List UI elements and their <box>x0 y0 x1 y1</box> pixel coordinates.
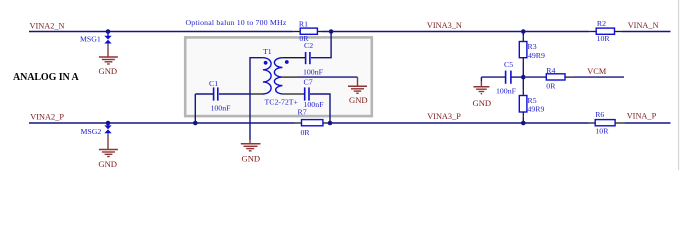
wire VCM stub <box>574 76 624 78</box>
secondary winding <box>274 58 282 94</box>
capacitor C7 <box>304 78 325 109</box>
pin stub below MSG1 <box>107 44 109 49</box>
wire center tap to ground <box>297 76 358 78</box>
wire R5 to bottom rail <box>522 112 524 117</box>
svg-text:C1: C1 <box>209 79 218 88</box>
svg-text:VINA2_N: VINA2_N <box>30 21 65 30</box>
svg-text:49R9: 49R9 <box>528 51 545 60</box>
junction node VINA3_N column <box>521 29 526 34</box>
sheet border right <box>678 0 680 170</box>
svg-text:R6: R6 <box>595 110 604 119</box>
wire C5 down to ground <box>480 77 482 81</box>
svg-text:VINA3_N: VINA3_N <box>427 21 462 30</box>
svg-text:10R: 10R <box>597 34 611 43</box>
wire C1 right <box>219 93 251 95</box>
junction dot top at MSG1 <box>106 29 111 34</box>
svg-text:MSG2: MSG2 <box>81 127 102 136</box>
balun enclosure box <box>185 37 372 116</box>
pin T1 secondary bottom to C7 <box>282 93 304 95</box>
svg-text:0R: 0R <box>546 81 556 90</box>
solder jumper MSG1 <box>80 32 112 44</box>
svg-text:100nF: 100nF <box>304 100 325 109</box>
junction node bottom rail <box>521 121 526 126</box>
resistor R4 <box>526 66 574 91</box>
svg-text:100nF: 100nF <box>496 87 517 96</box>
wire R2 right to VINA_N end <box>621 31 670 33</box>
wire VINA2_N top rail left segment <box>29 31 293 33</box>
svg-text:VINA_N: VINA_N <box>628 21 659 30</box>
svg-text:R4: R4 <box>546 66 555 75</box>
ground GND below balun box <box>241 140 261 163</box>
svg-text:0R: 0R <box>301 128 311 137</box>
svg-text:C5: C5 <box>504 60 513 69</box>
svg-text:VCM: VCM <box>587 67 607 76</box>
svg-text:T1: T1 <box>263 47 272 56</box>
resistor R7 <box>295 108 331 137</box>
junction node after R1 <box>329 29 334 34</box>
wire R7 right to rail <box>330 122 589 124</box>
wire R5 riser <box>522 77 524 91</box>
svg-text:VINA3_P: VINA3_P <box>427 112 461 121</box>
svg-text:R2: R2 <box>597 19 606 28</box>
junction node C1 tap <box>193 121 198 126</box>
wire C1 riser to bottom rail <box>194 94 196 123</box>
svg-text:MSG1: MSG1 <box>80 35 101 44</box>
svg-text:GND: GND <box>98 159 117 169</box>
pin T1 primary bottom <box>251 93 263 95</box>
resistor R1 <box>293 20 321 44</box>
junction node VCM <box>521 75 526 80</box>
wire C2 to node after R1 <box>311 32 331 58</box>
svg-text:TC2-72T+: TC2-72T+ <box>265 98 299 107</box>
capacitor C2 <box>303 41 324 76</box>
pin stub below MSG2 <box>107 133 109 137</box>
ground GND inside box <box>348 77 368 105</box>
svg-text:100nF: 100nF <box>303 67 324 76</box>
pin T1 secondary top to C2 <box>282 57 305 59</box>
resistor R3 <box>519 42 545 61</box>
ground GND below MSG2 <box>98 138 118 169</box>
svg-text:R3: R3 <box>528 42 537 51</box>
primary winding <box>263 58 271 94</box>
svg-text:VINA2_P: VINA2_P <box>30 113 64 122</box>
wire down to R3 <box>522 32 524 37</box>
svg-text:49R9: 49R9 <box>528 104 545 113</box>
wire R6 right to VINA_P end <box>624 122 670 124</box>
wire R1 right to rail <box>322 31 590 33</box>
capacitor C1 <box>195 79 231 113</box>
svg-text:GND: GND <box>242 154 261 164</box>
wire C7 to node after R7 <box>310 94 330 123</box>
svg-text:10R: 10R <box>595 127 609 136</box>
resistor R5 <box>519 96 544 114</box>
svg-text:Optional balun 10 to 700 MHz: Optional balun 10 to 700 MHz <box>186 18 287 27</box>
svg-text:R7: R7 <box>298 108 307 117</box>
svg-text:R1: R1 <box>299 20 308 29</box>
secondary dot <box>285 60 289 64</box>
capacitor C5 <box>481 60 521 95</box>
wire VINA2_P bottom rail left segment <box>29 122 295 124</box>
transformer T1 <box>263 47 299 106</box>
resistor R6 <box>589 110 625 135</box>
svg-text:C2: C2 <box>304 41 313 50</box>
svg-text:ANALOG IN A: ANALOG IN A <box>13 72 79 83</box>
resistor R2 <box>589 19 621 43</box>
pin T1 secondary center tap <box>282 76 297 78</box>
svg-text:GND: GND <box>473 98 492 108</box>
ground GND below MSG1 <box>99 49 118 77</box>
svg-text:C7: C7 <box>304 78 313 87</box>
primary dot <box>264 61 268 65</box>
wire R3 to VCM node <box>522 58 524 63</box>
solder jumper MSG2 <box>81 123 112 136</box>
svg-text:GND: GND <box>99 66 118 76</box>
svg-text:GND: GND <box>349 95 368 105</box>
svg-text:VINA_P: VINA_P <box>627 112 657 121</box>
ground GND below C5 <box>473 81 492 108</box>
svg-text:100nF: 100nF <box>211 104 232 113</box>
junction node after R7 <box>328 121 333 126</box>
junction dot bottom at MSG2 <box>106 121 111 126</box>
wire T1 primary top to ground <box>250 58 263 141</box>
